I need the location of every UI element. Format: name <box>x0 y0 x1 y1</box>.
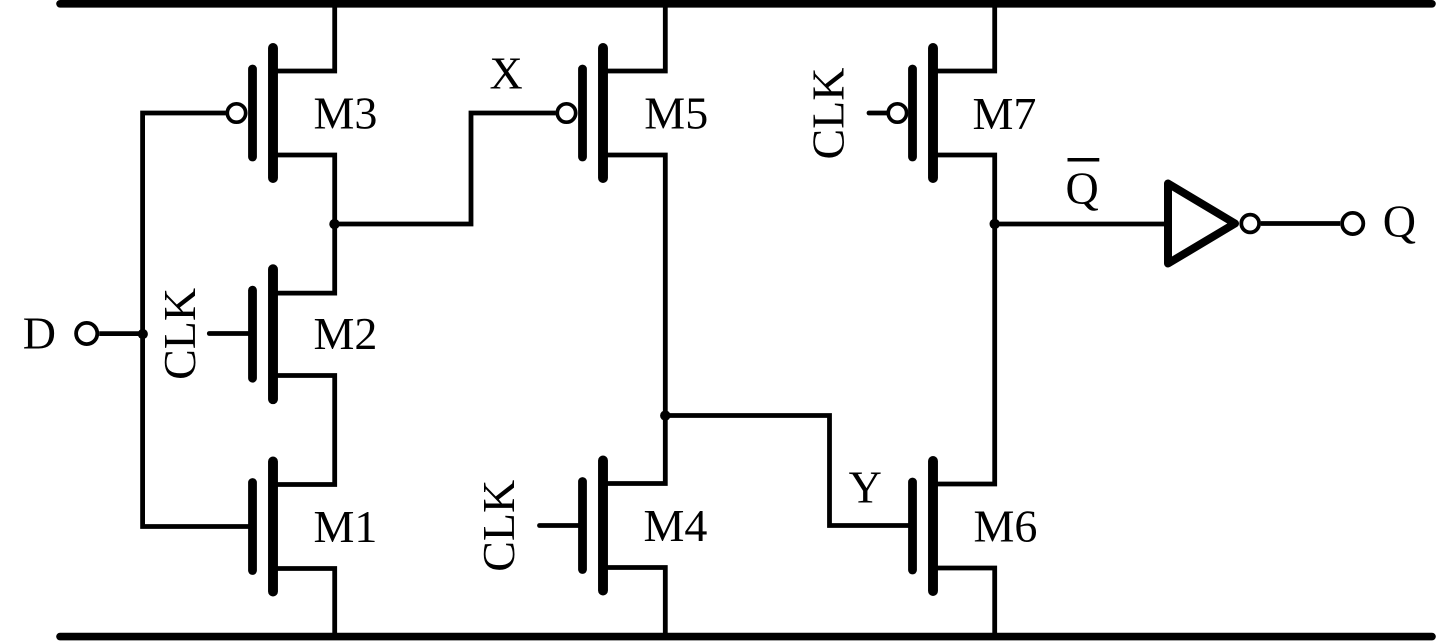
svg-text:Q: Q <box>1383 196 1416 247</box>
svg-text:CLK: CLK <box>473 480 524 572</box>
wire M7 source to node Qbar to M6 drain <box>933 155 995 484</box>
wire CLK stub M2 gate <box>209 331 252 336</box>
junction node D <box>138 329 148 339</box>
input terminal D <box>76 323 97 344</box>
svg-text:X: X <box>490 48 523 99</box>
wire M2 source to M1 drain <box>273 376 335 485</box>
wire node Y to M6 gate <box>665 416 908 526</box>
wire node X to M5 gate <box>335 113 556 224</box>
svg-text:M3: M3 <box>314 88 378 139</box>
svg-text:Q: Q <box>1066 163 1099 214</box>
transistor M6 <box>913 461 934 591</box>
output terminal Q <box>1342 213 1363 234</box>
transistor M3 <box>227 48 273 178</box>
svg-text:M4: M4 <box>644 500 708 551</box>
svg-text:M1: M1 <box>314 501 378 552</box>
wire CLK stub M4 gate <box>540 523 583 528</box>
svg-text:M2: M2 <box>314 308 378 359</box>
transistor M2 <box>253 269 274 399</box>
wire node Qbar to inverter input <box>995 222 1165 227</box>
svg-text:M5: M5 <box>644 88 708 139</box>
transistor M7 <box>888 48 933 178</box>
VDD rail <box>60 0 1432 8</box>
svg-text:M6: M6 <box>974 501 1038 552</box>
wire inverter output to terminal Q <box>1261 221 1340 226</box>
wire D input <box>99 331 143 336</box>
transistor M5 <box>557 48 603 178</box>
wire M5 source to node Y to M4 drain <box>603 155 665 484</box>
junction node Y <box>660 410 670 420</box>
junction node Qbar <box>990 219 1000 229</box>
ground rail <box>60 633 1432 641</box>
transistor M1 <box>253 462 274 592</box>
svg-text:CLK: CLK <box>154 288 205 380</box>
svg-text:Y: Y <box>849 461 882 512</box>
inverter U1 <box>1168 184 1259 264</box>
wire CLK stub M7 gate <box>869 111 887 116</box>
transistor M4 <box>583 461 604 591</box>
wire M6 source to ground <box>933 568 995 639</box>
wire VDD to M3 drain <box>273 2 335 71</box>
junction node X <box>329 219 339 229</box>
wire D bus to M3 and M1 gates <box>143 113 249 527</box>
node label Qbar <box>1066 160 1100 214</box>
wire VDD to M7 drain <box>933 2 995 71</box>
wire M4 source to ground <box>603 568 665 640</box>
wire M1 source to ground <box>273 569 335 640</box>
wire M3 source to node X to M2 drain <box>273 155 335 293</box>
svg-text:D: D <box>23 307 56 358</box>
svg-text:CLK: CLK <box>803 68 854 160</box>
wire VDD to M5 drain <box>603 2 665 71</box>
svg-text:M7: M7 <box>973 88 1037 139</box>
